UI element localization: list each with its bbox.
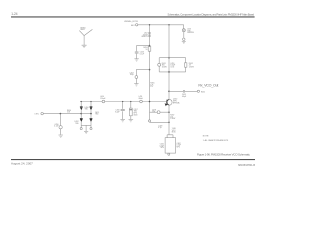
svg-text:TBD: TBD — [95, 114, 99, 116]
node junction top wire / left rail — [149, 24, 150, 25]
svg-text:68nH: 68nH — [139, 98, 144, 100]
capacitor C450 (circle) — [59, 126, 62, 129]
svg-text:6.8pF: 6.8pF — [182, 96, 186, 98]
ground (varactor) — [84, 131, 88, 133]
varactor column 2 lower wire — [90, 122, 92, 126]
node junction varactor mid col2 — [90, 113, 92, 115]
node junction varactor rail col1 — [81, 101, 82, 102]
svg-text:1-24: 1-24 — [11, 12, 18, 16]
wire loop top — [159, 57, 186, 59]
inductor L453 — [182, 29, 185, 32]
transistor Q450 — [165, 99, 173, 106]
terminal pad col2 — [90, 128, 92, 130]
wire emitter link y122.3 — [150, 121, 170, 123]
wire C453 to ground — [136, 54, 138, 59]
wire loop right branch — [185, 58, 187, 72]
svg-text:10: 10 — [146, 49, 148, 51]
wire C456 to ground — [122, 111, 124, 119]
wire varactor center ground stem — [85, 125, 87, 131]
wire main rail to module — [168, 105, 170, 135]
inductor L450 (circle) — [102, 100, 105, 103]
varactor column 2 upper wire — [90, 102, 92, 107]
wire drop to L453 — [183, 25, 185, 29]
svg-text:Rx_VCO_Out: Rx_VCO_Out — [198, 83, 218, 87]
svg-text:0603CS: 0603CS — [141, 36, 148, 38]
module U450 box — [165, 138, 176, 153]
wire base link y112.2 — [150, 111, 170, 113]
shield ground Y symbol — [79, 29, 92, 45]
wire to C453 — [137, 46, 150, 52]
varactor column 2 mid wire — [90, 110, 92, 118]
wire L453 to C460 — [183, 32, 185, 38]
terminal pad col1 — [80, 128, 82, 130]
ground (C450) — [59, 135, 63, 137]
svg-text:0603WS: 0603WS — [187, 32, 194, 34]
node junction left rail x main top rail — [149, 101, 151, 103]
wire control line — [43, 113, 81, 115]
terminal E450 — [197, 90, 199, 92]
capacitor C455 (series) — [183, 90, 184, 93]
wire top rail horizontal — [138, 24, 184, 26]
varactor column 1 upper wire — [80, 102, 82, 107]
svg-text:6816533H01-B: 6816533H01-B — [238, 164, 255, 167]
svg-text:0.1uF: 0.1uF — [140, 54, 144, 56]
svg-text:Figure 1-96. PM1500 Receiver V: Figure 1-96. PM1500 Receiver VCO Schemat… — [197, 153, 251, 157]
ground (Y451) — [129, 120, 134, 122]
node junction base link right — [168, 111, 170, 113]
svg-text:SHLD: SHLD — [80, 29, 85, 31]
ground (C460) — [182, 41, 186, 43]
wire varactor bottom link — [81, 124, 91, 126]
varactor D453 — [90, 119, 93, 123]
svg-text:E450: E450 — [201, 91, 205, 93]
wire to E454 — [136, 70, 149, 76]
svg-text:TBD: TBD — [75, 123, 79, 125]
svg-text:MOD: MOD — [172, 132, 177, 134]
resistor R453 — [148, 47, 151, 52]
svg-text:1/16W: 1/16W — [189, 67, 194, 69]
svg-text:0603: 0603 — [134, 114, 138, 116]
resonator Y451 — [130, 108, 133, 116]
capacitor C456 — [121, 109, 125, 110]
svg-text:CTRL: CTRL — [34, 113, 38, 115]
wire module pin bar — [167, 135, 173, 138]
wire output left segment — [169, 90, 183, 92]
terminal module bottom — [168, 153, 170, 155]
node junction C450 tap — [60, 113, 62, 115]
ground (C456) — [120, 120, 125, 122]
wire loop left branch — [158, 58, 160, 72]
varactor column 1 lower wire — [80, 122, 82, 126]
ground (C453) — [134, 59, 138, 61]
svg-text:August 24, 2007: August 24, 2007 — [11, 161, 33, 165]
svg-text:0.1uF: 0.1uF — [54, 126, 58, 128]
svg-text:1/16W: 1/16W — [162, 67, 167, 69]
capacitor C456 branch wire — [122, 102, 124, 109]
node junction varactor rail C456 — [122, 101, 123, 102]
wire Y451 to ground — [130, 116, 132, 120]
node junction varactor mid col1 — [80, 113, 82, 115]
svg-text:12p: 12p — [152, 111, 155, 113]
svg-text:4.7p: 4.7p — [158, 127, 161, 129]
inductor L452 — [148, 32, 151, 36]
wire varactor top rail — [80, 101, 166, 103]
via E454 — [135, 76, 138, 79]
varactor column 1 mid wire — [80, 110, 82, 118]
node junction loop top — [168, 57, 170, 59]
svg-text:1. ALL CAPACITORS ARE IN PF.: 1. ALL CAPACITORS ARE IN PF. — [203, 139, 229, 142]
svg-text:E401: E401 — [131, 25, 135, 27]
varactor D450 — [80, 107, 83, 111]
jumper E453 — [157, 111, 160, 114]
node junction loop bottom — [168, 71, 170, 73]
ground (E454) — [134, 84, 138, 86]
svg-text:NOTE:: NOTE: — [203, 136, 210, 138]
inductor L451 (circle) — [140, 100, 143, 103]
svg-text:1/16W: 1/16W — [170, 118, 175, 120]
svg-text:NP0: NP0 — [177, 147, 180, 149]
varactor D451 — [90, 107, 93, 111]
svg-text:120nH: 120nH — [100, 98, 106, 100]
wire varactor mid link — [81, 113, 91, 115]
terminal E452 — [41, 112, 43, 114]
node junction top wire / main rail — [168, 24, 169, 25]
terminal E401 — [136, 24, 138, 26]
node junction left rail / E454 — [149, 69, 151, 71]
capacitor C460 — [183, 38, 185, 40]
wire down to C450 — [59, 114, 61, 126]
jumper circle left rail — [148, 120, 150, 122]
svg-text:100p: 100p — [130, 74, 134, 76]
capacitor C453 — [135, 52, 139, 53]
node junction left rail / C453 — [149, 45, 151, 47]
ground (shield) — [82, 45, 87, 47]
node junction output — [168, 91, 170, 93]
wire C450 to ground — [60, 129, 62, 135]
svg-text:TBD: TBD — [85, 109, 89, 111]
svg-text:8.2pF: 8.2pF — [115, 111, 119, 113]
footer rule — [11, 159, 255, 160]
node junction varactor rail col2 — [90, 101, 91, 102]
resistor R452 — [185, 63, 187, 67]
svg-text:UNSWB+_FLTRD: UNSWB+_FLTRD — [124, 21, 139, 23]
svg-text:COG: COG — [170, 67, 175, 69]
node junction emitter link — [168, 122, 170, 124]
resistor R451 (circle style) — [158, 63, 161, 66]
wire left rail vertical — [149, 25, 151, 123]
wire E454 to ground — [135, 78, 137, 83]
node junction varactor rail Y451 — [130, 101, 131, 102]
wire output right segment — [185, 90, 197, 92]
wire main rail vertical top — [168, 25, 170, 100]
resonator Y451 branch wire — [130, 102, 132, 109]
varactor D452 — [80, 119, 83, 123]
svg-text:BFR92A: BFR92A — [173, 102, 180, 105]
svg-text:NP0: NP0 — [161, 147, 164, 149]
wire loop bottom — [159, 71, 186, 73]
header rule — [11, 16, 255, 17]
svg-text:Schematics, Component Location: Schematics, Component Location Diagrams,… — [168, 12, 255, 16]
